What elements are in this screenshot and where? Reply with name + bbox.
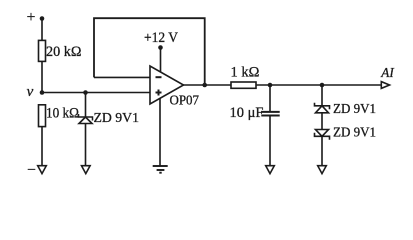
arrow down left rail (38, 166, 47, 174)
wire (41, 127, 43, 166)
wire (269, 116, 271, 166)
feedback wire rectangle (94, 18, 205, 85)
svg-text:20 kΩ: 20 kΩ (46, 44, 81, 60)
svg-text:10 μF: 10 μF (230, 105, 264, 121)
arrow down zener Z1 (82, 166, 91, 174)
op-amp non-inverting input marker (156, 92, 162, 94)
zener diode Z2 ZD 9V1 (321, 85, 323, 106)
zener diode Z3 ZD 9V1 (316, 130, 329, 137)
supply +12 V (144, 30, 178, 46)
node - (negative supply label) (27, 162, 36, 179)
node zener junction (320, 83, 325, 88)
node + (positive supply label) (27, 9, 36, 26)
resistor R2 10 kOhm (39, 105, 46, 127)
wire op-amp output (184, 84, 232, 86)
wire (41, 19, 43, 41)
node junction at zener branch (83, 90, 88, 95)
svg-text:ZD 9V1: ZD 9V1 (333, 125, 376, 140)
svg-text:v: v (27, 84, 34, 100)
svg-text:1 kΩ: 1 kΩ (231, 64, 260, 80)
svg-text:+12 V: +12 V (144, 30, 178, 46)
op-amp inverting input marker (156, 76, 162, 78)
svg-text:10 kΩ: 10 kΩ (46, 105, 79, 121)
svg-text:ZD 9V1: ZD 9V1 (94, 111, 140, 126)
wire (321, 113, 323, 130)
ground (153, 165, 168, 167)
svg-text:−: − (27, 162, 36, 179)
arrow down zener Z3 (318, 166, 327, 174)
svg-text:ZD 9V1: ZD 9V1 (333, 102, 376, 117)
wire v node to op-amp plus input (42, 92, 150, 94)
resistor R1 20 kOhm (39, 40, 46, 61)
arrow right AI (381, 82, 389, 89)
wire (41, 61, 43, 92)
node top-left junction (40, 16, 45, 21)
wire supply to op-amp (160, 48, 162, 73)
arrow down capacitor (266, 166, 275, 174)
svg-text:+: + (27, 9, 36, 26)
wire feedback to inverting input (94, 76, 150, 78)
wire op-amp to ground (159, 98, 161, 166)
capacitor C1 10 uF (269, 85, 271, 112)
node capacitor junction (268, 83, 273, 88)
node v (27, 84, 34, 100)
wire (85, 124, 87, 166)
svg-text:AI: AI (380, 66, 395, 81)
wire (321, 136, 323, 165)
svg-text:OP07: OP07 (170, 94, 200, 109)
node feedback junction (202, 83, 207, 88)
resistor R3 1 kOhm (231, 82, 256, 88)
zener diode Z1 ZD 9V1 (85, 93, 87, 118)
op-amp label OP07 (170, 94, 200, 109)
op-amp U1 OP07 (150, 66, 184, 104)
wire output line (256, 84, 382, 86)
